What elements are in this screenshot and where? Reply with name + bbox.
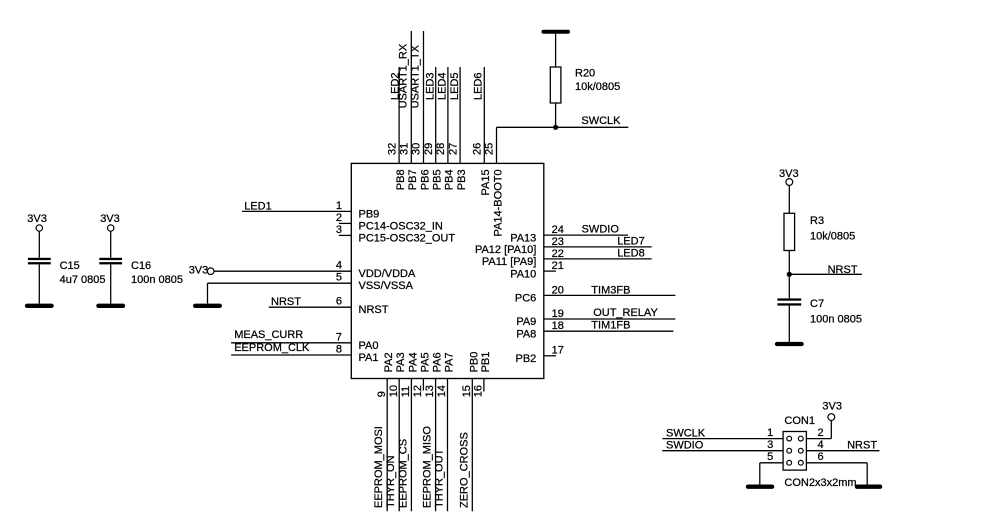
svg-text:PB6: PB6 — [419, 169, 431, 190]
svg-text:C7: C7 — [810, 298, 824, 310]
svg-text:C16: C16 — [131, 260, 151, 272]
svg-text:NRST: NRST — [847, 440, 877, 452]
svg-text:PA2: PA2 — [383, 352, 395, 372]
svg-text:13: 13 — [424, 385, 436, 397]
svg-text:PC14-OSC32_IN: PC14-OSC32_IN — [359, 220, 443, 232]
svg-text:CON2x3x2mm: CON2x3x2mm — [784, 477, 856, 489]
svg-text:ZERO_CROSS: ZERO_CROSS — [458, 432, 470, 508]
svg-text:LED1: LED1 — [244, 200, 272, 212]
svg-text:3V3: 3V3 — [822, 400, 842, 412]
svg-text:14: 14 — [436, 385, 448, 397]
svg-text:4u7 0805: 4u7 0805 — [60, 274, 106, 286]
svg-text:PA7: PA7 — [444, 352, 456, 372]
svg-text:4: 4 — [336, 260, 342, 272]
svg-text:22: 22 — [552, 248, 564, 260]
svg-text:NRST: NRST — [828, 264, 858, 276]
svg-text:THYR_ON: THYR_ON — [385, 455, 397, 508]
svg-text:SWDIO: SWDIO — [666, 439, 704, 451]
svg-text:PA10: PA10 — [510, 268, 536, 280]
svg-text:LED8: LED8 — [617, 247, 645, 259]
svg-text:TIM1FB: TIM1FB — [591, 320, 630, 332]
svg-text:NRST: NRST — [359, 304, 389, 316]
svg-text:NRST: NRST — [271, 296, 301, 308]
svg-text:PA11 [PA9]: PA11 [PA9] — [482, 256, 536, 268]
svg-text:PB8: PB8 — [395, 169, 407, 190]
svg-text:8: 8 — [336, 344, 342, 356]
svg-text:LED5: LED5 — [449, 72, 461, 100]
svg-text:TIM3FB: TIM3FB — [591, 284, 630, 296]
svg-text:PB1: PB1 — [480, 352, 492, 373]
svg-text:24: 24 — [552, 224, 564, 236]
svg-text:3V3: 3V3 — [27, 213, 47, 225]
svg-text:R3: R3 — [810, 215, 824, 227]
svg-text:PB5: PB5 — [432, 169, 444, 190]
svg-text:4: 4 — [818, 439, 824, 451]
svg-text:32: 32 — [386, 143, 398, 155]
svg-text:3: 3 — [336, 224, 342, 236]
svg-text:20: 20 — [552, 284, 564, 296]
svg-text:16: 16 — [473, 385, 485, 397]
svg-text:PA4: PA4 — [407, 352, 419, 372]
svg-text:17: 17 — [552, 345, 564, 357]
svg-text:VSS/VSSA: VSS/VSSA — [359, 280, 414, 292]
svg-text:6: 6 — [818, 451, 824, 463]
svg-text:18: 18 — [552, 320, 564, 332]
svg-text:LED4: LED4 — [437, 72, 449, 100]
svg-text:30: 30 — [411, 143, 423, 155]
svg-text:R20: R20 — [575, 68, 595, 80]
svg-text:12: 12 — [412, 385, 424, 397]
svg-text:3: 3 — [767, 439, 773, 451]
svg-text:100n 0805: 100n 0805 — [131, 274, 183, 286]
svg-text:5: 5 — [767, 451, 773, 463]
svg-text:2: 2 — [336, 212, 342, 224]
svg-text:LED7: LED7 — [617, 235, 645, 247]
svg-text:LED6: LED6 — [473, 72, 485, 100]
svg-text:SWCLK: SWCLK — [581, 115, 621, 127]
svg-text:PA5: PA5 — [419, 352, 431, 372]
svg-text:SWCLK: SWCLK — [666, 428, 706, 440]
svg-text:10k/0805: 10k/0805 — [575, 81, 620, 93]
svg-text:USART1_TX: USART1_TX — [410, 44, 422, 108]
svg-text:100n 0805: 100n 0805 — [810, 313, 862, 325]
svg-text:3V3: 3V3 — [100, 213, 120, 225]
svg-text:PB2: PB2 — [516, 353, 537, 365]
svg-text:OUT_RELAY: OUT_RELAY — [593, 307, 658, 319]
svg-text:LED3: LED3 — [424, 72, 436, 100]
svg-text:PB0: PB0 — [468, 352, 480, 373]
svg-text:PB7: PB7 — [407, 169, 419, 190]
svg-text:CON1: CON1 — [784, 415, 815, 427]
svg-text:EEPROM_CS: EEPROM_CS — [397, 439, 409, 508]
svg-text:VDD/VDDA: VDD/VDDA — [359, 268, 417, 280]
svg-text:10: 10 — [388, 385, 400, 397]
svg-text:28: 28 — [435, 143, 447, 155]
svg-text:PA3: PA3 — [395, 352, 407, 372]
svg-text:19: 19 — [552, 308, 564, 320]
svg-text:PB4: PB4 — [444, 169, 456, 190]
svg-text:PA14-BOOT0: PA14-BOOT0 — [492, 169, 504, 236]
svg-text:21: 21 — [552, 260, 564, 272]
svg-text:PC6: PC6 — [515, 293, 536, 305]
svg-text:11: 11 — [400, 386, 412, 397]
svg-text:9: 9 — [376, 391, 388, 397]
svg-text:23: 23 — [552, 236, 564, 248]
svg-text:7: 7 — [336, 331, 342, 343]
svg-text:MEAS_CURR: MEAS_CURR — [234, 329, 303, 341]
svg-text:PB3: PB3 — [456, 169, 468, 190]
svg-text:2: 2 — [818, 427, 824, 439]
svg-text:26: 26 — [472, 143, 484, 155]
svg-text:6: 6 — [336, 296, 342, 308]
svg-text:1: 1 — [767, 427, 773, 439]
svg-text:15: 15 — [461, 385, 473, 397]
svg-text:PA8: PA8 — [516, 328, 536, 340]
svg-text:PA1: PA1 — [359, 352, 379, 364]
svg-text:THYR_OUT: THYR_OUT — [434, 448, 446, 508]
svg-text:PB9: PB9 — [359, 208, 380, 220]
svg-text:C15: C15 — [60, 260, 80, 272]
svg-text:SWDIO: SWDIO — [582, 224, 620, 236]
svg-text:USART1_RX: USART1_RX — [397, 43, 409, 108]
svg-text:10k/0805: 10k/0805 — [810, 231, 855, 243]
svg-text:5: 5 — [336, 272, 342, 284]
svg-text:29: 29 — [423, 143, 435, 155]
svg-text:PA6: PA6 — [432, 352, 444, 372]
svg-text:1: 1 — [336, 200, 342, 212]
svg-text:3V3: 3V3 — [189, 265, 209, 277]
svg-text:31: 31 — [399, 143, 411, 155]
svg-text:EEPROM_CLK: EEPROM_CLK — [234, 342, 310, 354]
svg-text:EEPROM_MISO: EEPROM_MISO — [422, 426, 434, 508]
svg-text:PA0: PA0 — [359, 340, 379, 352]
svg-text:EEPROM_MOSI: EEPROM_MOSI — [373, 426, 385, 508]
svg-text:PC15-OSC32_OUT: PC15-OSC32_OUT — [359, 232, 456, 244]
svg-text:27: 27 — [447, 143, 459, 155]
svg-text:PA15: PA15 — [480, 169, 492, 195]
svg-text:PA13: PA13 — [510, 232, 536, 244]
svg-text:25: 25 — [484, 143, 496, 155]
svg-text:PA9: PA9 — [516, 316, 536, 328]
svg-text:PA12 [PA10]: PA12 [PA10] — [475, 244, 536, 256]
